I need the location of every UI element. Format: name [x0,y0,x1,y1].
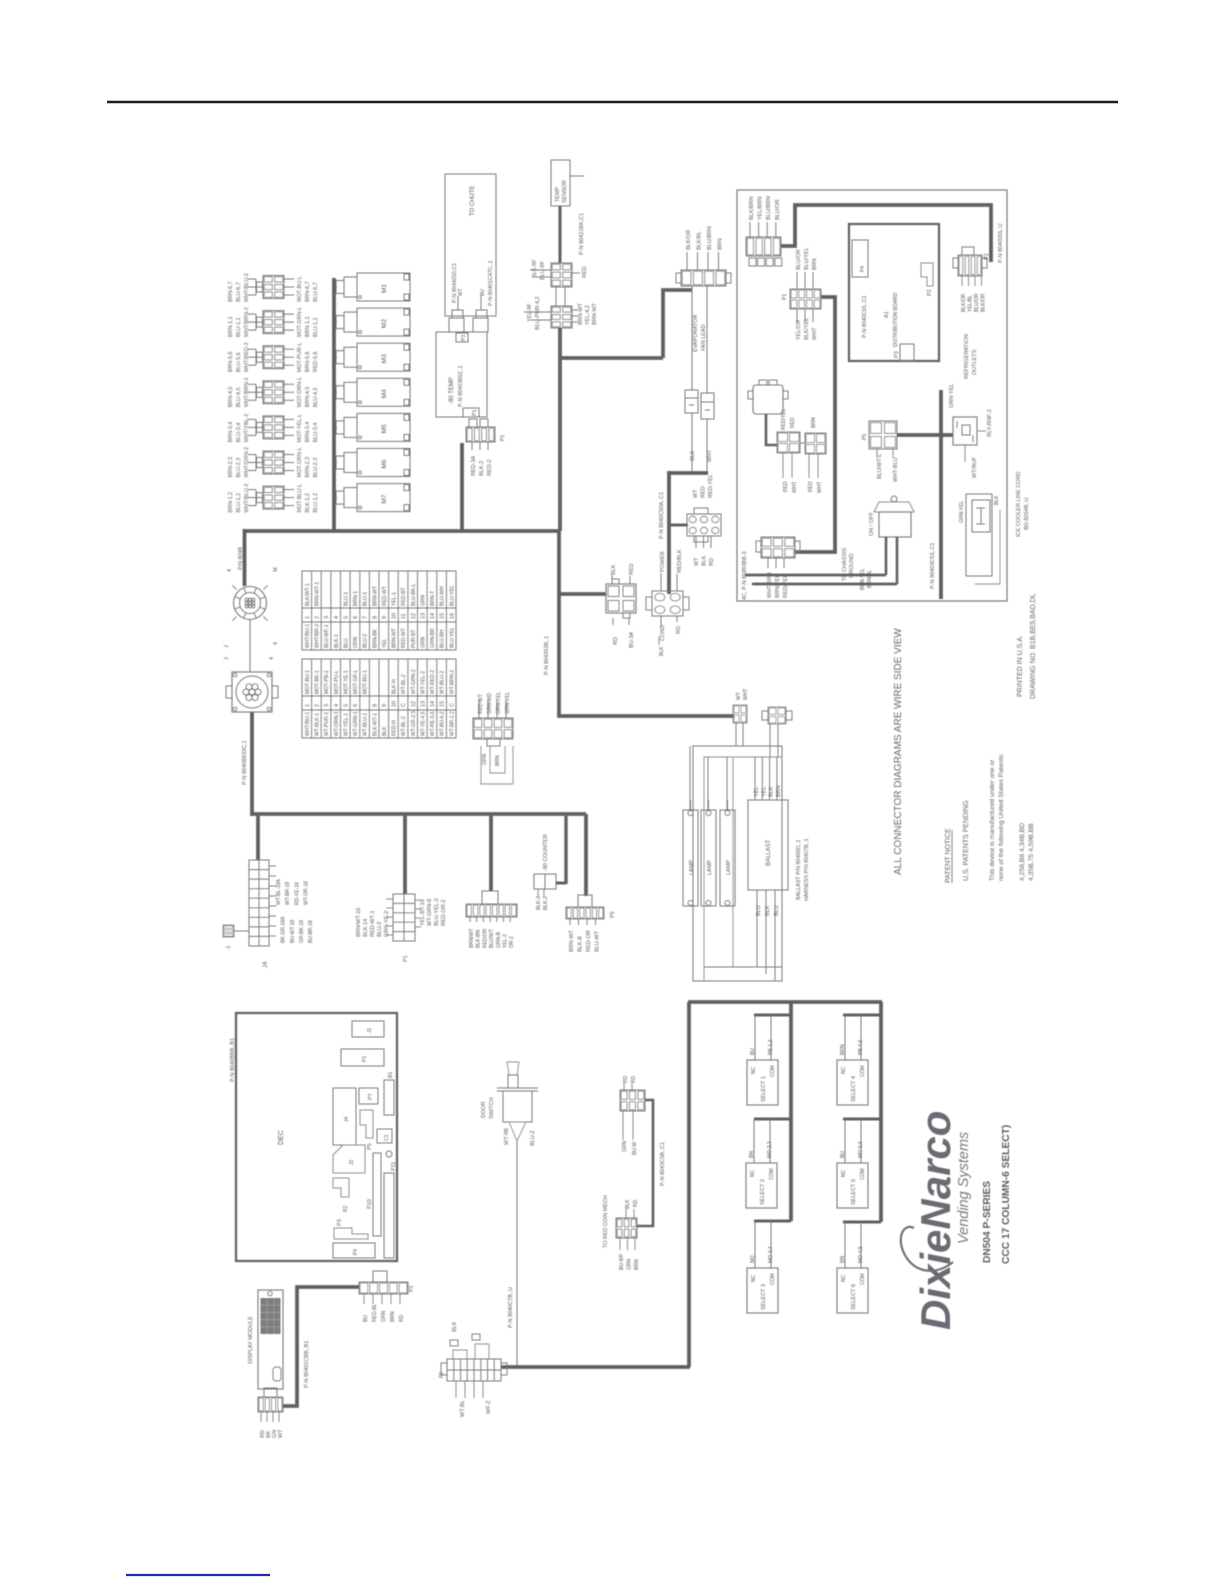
svg-text:BLU-2: BLU-2 [530,1130,536,1146]
svg-text:BLU-3,4: BLU-3,4 [236,423,242,443]
svg-text:BLU-6,7: BLU-6,7 [236,282,242,302]
svg-text:GRN-YE-2: GRN-YE-2 [384,911,390,937]
svg-text:P/N 804B: P/N 804B [238,547,244,570]
svg-text:BLU-6,7: BLU-6,7 [313,282,319,302]
svg-text:GRN: GRN [420,637,426,649]
svg-text:BLK-1: BLK-1 [334,634,340,648]
svg-text:2: 2 [315,616,321,619]
svg-text:BK-GR-18A: BK-GR-18A [281,916,287,943]
svg-text:RED-BT: RED-BT [401,587,407,606]
svg-text:P-N 8040B933C,1: P-N 8040B933C,1 [242,740,248,785]
svg-text:12: 12 [411,613,417,619]
svg-text:BLK/OR: BLK/OR [686,230,692,250]
svg-text:WT-OR-18: WT-OR-18 [304,881,310,905]
svg-text:YEL/BL: YEL/BL [968,295,974,312]
svg-text:BU: BU [363,1315,369,1322]
svg-text:WHT/BR-2: WHT/BR-2 [315,624,321,648]
svg-text:WHT: WHT [707,449,713,462]
svg-text:MOT-YEL-L: MOT-YEL-L [297,414,303,442]
svg-text:RED/YEL: RED/YEL [783,574,789,598]
svg-text:none of the following United S: none of the following United States Pate… [998,753,1005,881]
svg-text:BRN-WT: BRN-WT [372,586,378,606]
svg-text:BRN-2,3: BRN-2,3 [305,457,311,478]
svg-text:BLK-2: BLK-2 [543,896,549,910]
svg-text:4: 4 [334,616,340,619]
svg-text:BLU-WF-1: BLU-WF-1 [324,624,330,648]
svg-text:-80 COUNTER: -80 COUNTER [543,834,549,871]
svg-text:BRN-3,4: BRN-3,4 [305,422,311,443]
svg-text:WT-BL-18A: WT-BL-18A [276,878,282,905]
svg-text:BLK-9F: BLK-9F [532,259,538,278]
svg-text:5: 5 [343,616,349,619]
svg-text:BLK/WT-1: BLK/WT-1 [305,583,311,606]
svg-text:WT: WT [278,1429,284,1438]
svg-text:RED-5,6: RED-5,6 [313,352,319,373]
svg-text:P1: P1 [362,1056,368,1062]
svg-text:RD: RD [676,626,682,634]
svg-text:P3: P3 [337,1219,343,1226]
svg-text:BU-WF: BU-WF [619,1254,625,1270]
svg-text:BLK-B: BLK-B [578,936,584,952]
svg-text:COM: COM [860,1065,866,1077]
svg-text:BLU-2: BLU-2 [363,634,369,648]
svg-text:BALLAST P/N 80400D,.1: BALLAST P/N 80400D,.1 [796,840,802,900]
svg-text:BLU-3,4: BLU-3,4 [313,423,319,443]
svg-text:BLK-BN: BLK-BN [476,930,482,948]
svg-text:WT-BL-2: WT-BL-2 [401,674,407,694]
svg-text:MOT-YE-1: MOT-YE-1 [343,670,349,694]
svg-text:P-N 90403C53,.C1: P-N 90403C53,.C1 [930,543,936,589]
svg-text:M: M [273,567,279,572]
svg-text:NC: NC [841,1274,847,1282]
svg-text:MOT-BU-1: MOT-BU-1 [363,670,369,694]
svg-text:BN: BN [840,1256,846,1263]
svg-text:4: 4 [334,704,340,707]
svg-text:SENSOR: SENSOR [562,180,568,203]
svg-text:MOT-GRN-L: MOT-GRN-L [297,307,303,337]
svg-text:WT-YEL-1: WT-YEL-1 [343,713,349,736]
svg-text:BU: BU [750,1048,756,1055]
svg-text:Vending Systems: Vending Systems [956,1132,972,1244]
svg-text:RED: RED [701,486,707,498]
svg-text:COM: COM [769,1168,775,1180]
svg-text:BLU-4,5: BLU-4,5 [236,388,242,408]
svg-text:13: 13 [420,613,426,619]
svg-text:BLU-1,2: BLU-1,2 [313,493,319,513]
svg-text:RED/YEL: RED/YEL [781,408,787,430]
svg-text:WT-BU-6,2: WT-BU-6,2 [440,711,446,736]
svg-text:TEMP: TEMP [555,187,561,202]
svg-text:SELECT 5: SELECT 5 [851,1179,857,1205]
svg-text:P5: P5 [367,1143,373,1150]
svg-text:16: 16 [449,613,455,619]
svg-text:3: 3 [324,704,330,707]
svg-text:1: 1 [305,616,311,619]
svg-text:NC: NC [751,1066,757,1074]
svg-text:WT-BLK-1: WT-BLK-1 [315,713,321,736]
svg-text:BRN-YEL: BRN-YEL [860,568,866,590]
svg-text:BLU: BLU [756,905,762,916]
svg-text:BLK/YEL: BLK/YEL [804,318,810,340]
svg-text:YEL: YEL [382,638,388,648]
svg-text:BLU-2: BLU-2 [377,921,383,937]
svg-text:BLU-1,1: BLU-1,1 [236,317,242,337]
svg-text:PB-1,2: PB-1,2 [768,1039,774,1055]
svg-text:DRAWING NO. B1B,BE5,BAD,DL: DRAWING NO. B1B,BE5,BAD,DL [1030,593,1037,699]
svg-text:BD-8254B,.U: BD-8254B,.U [1024,498,1030,530]
svg-text:BLK: BLK [452,1321,458,1332]
svg-text:BRN-6,7: BRN-6,7 [305,281,311,302]
svg-text:BLU/YEL: BLU/YEL [804,247,810,270]
svg-text:WHT/YBL-2: WHT/YBL-2 [244,414,250,443]
svg-text:BRN-3,4: BRN-3,4 [228,422,234,443]
svg-text:P3: P3 [894,351,900,358]
svg-text:J: J [224,645,230,648]
svg-text:LAMP: LAMP [689,860,695,875]
svg-text:DEC: DEC [278,1130,285,1145]
svg-text:BLU-2,3: BLU-2,3 [236,458,242,478]
svg-text:ORN-YEL: ORN-YEL [496,692,502,714]
svg-text:CCC 17 COLUMN-6 SELECT): CCC 17 COLUMN-6 SELECT) [1001,1125,1012,1264]
svg-text:RED-H: RED-H [392,720,398,736]
svg-text:BRN-1,1: BRN-1,1 [228,316,234,337]
svg-text:BRN: BRN [390,1311,396,1322]
svg-text:SELECT 1: SELECT 1 [761,1076,767,1102]
svg-text:BRN: BRN [811,417,817,428]
svg-text:15: 15 [440,613,446,619]
svg-text:BLK-WT-1: BLK-WT-1 [372,713,378,736]
svg-text:BLK-3: BLK-3 [536,896,542,910]
svg-text:GRN-YEL: GRN-YEL [949,384,955,408]
svg-text:POWER: POWER [660,551,666,572]
svg-text:BLK-1,2: BLK-1,2 [305,493,311,512]
svg-text:BRN-T: BRN-T [430,591,436,606]
svg-text:BLU-BH: BLU-BH [440,629,446,648]
svg-text:WT-BLU-1: WT-BLU-1 [363,712,369,736]
svg-text:COM: COM [860,1273,866,1285]
svg-text:P1: P1 [403,955,409,962]
svg-text:P5: P5 [862,434,868,440]
svg-text:10: 10 [392,701,398,707]
svg-text:NC: NC [841,1169,847,1177]
svg-text:BRN-1,2: BRN-1,2 [228,492,234,513]
svg-text:BRN: BRN [840,1044,846,1055]
svg-text:P-N 80401C47C,.1: P-N 80401C47C,.1 [488,260,494,306]
svg-text:P-N 8040C50A,.C1: P-N 8040C50A,.C1 [659,492,665,539]
svg-text:RED-YEL: RED-YEL [708,474,714,498]
svg-text:SELECT 3: SELECT 3 [761,1284,767,1310]
svg-text:MOT-PU-L: MOT-PU-L [334,670,340,694]
svg-text:P1: P1 [500,435,506,441]
svg-text:BLU: BLU [343,638,349,648]
svg-text:DISPLAY MODULE: DISPLAY MODULE [248,1316,254,1364]
svg-text:BLU-1: BLU-1 [343,592,349,606]
svg-text:BLU/BRN: BLU/BRN [766,196,772,220]
svg-text:RD: RD [623,1075,629,1083]
svg-text:P2: P2 [984,253,990,260]
svg-text:BN: BN [749,1151,755,1158]
svg-text:BRN-WT: BRN-WT [578,302,584,325]
svg-text:YEL: YEL [754,787,760,797]
svg-text:RED-OR: RED-OR [586,930,592,952]
svg-text:RED: RED [582,266,588,278]
svg-text:MOT-PB-1: MOT-PB-1 [324,670,330,694]
svg-text:YEL: YEL [761,787,767,797]
svg-text:M7: M7 [381,494,388,503]
svg-text:WT/BUF: WT/BUF [972,456,978,478]
svg-text:J: J [224,657,230,660]
svg-text:BLK: BLK [690,450,696,461]
svg-text:EVAPORATOR: EVAPORATOR [693,315,699,352]
svg-text:GRN-B: GRN-B [496,931,502,948]
svg-text:RD: RD [631,1075,637,1083]
svg-text:10: 10 [392,613,398,619]
svg-text:P-N 8040555,.U: P-N 8040555,.U [998,224,1004,263]
svg-text:P4: P4 [860,266,866,272]
svg-text:OUTLETS: OUTLETS [972,349,978,375]
svg-text:WT-BL-2: WT-BL-2 [401,716,407,736]
svg-text:P4: P4 [353,1249,359,1255]
svg-text:RED-WT: RED-WT [382,586,388,606]
svg-text:BLK: BLK [769,786,775,797]
svg-text:BLU-WH: BLU-WH [440,586,446,606]
svg-text:MOT-GR-L: MOT-GR-L [353,669,359,694]
svg-text:BU: BU [840,1151,846,1158]
svg-text:WHT-BLU: WHT-BLU [893,457,899,482]
svg-text:M1: M1 [381,284,388,293]
svg-text:BRN-1,1: BRN-1,1 [305,316,311,337]
svg-text:BLK-14: BLK-14 [363,919,369,937]
svg-text:MO-4,5: MO-4,5 [858,1246,864,1263]
svg-text:This device is manufactured un: This device is manufactured under one or [989,759,996,881]
svg-text:RED: RED [629,563,635,575]
svg-text:P1: P1 [782,294,788,300]
svg-text:M5: M5 [381,424,388,433]
svg-text:RD: RD [613,637,619,645]
svg-text:RD: RD [399,1314,405,1322]
svg-text:MOT-BLU-L: MOT-BLU-L [297,484,303,513]
svg-text:8: 8 [372,704,378,707]
svg-text:MOT-ORN-L: MOT-ORN-L [297,377,303,407]
svg-text:-1: -1 [226,945,232,950]
svg-text:P-N 80401CBB,.B1: P-N 80401CBB,.B1 [304,1341,310,1388]
svg-text:TO CHASSIS: TO CHASSIS [842,547,848,581]
svg-text:BRN-5,6: BRN-5,6 [305,352,311,373]
svg-text:4: 4 [273,642,279,645]
svg-text:BRN/YEL: BRN/YEL [775,574,781,598]
svg-text:BLU-4,5: BLU-4,5 [313,388,319,408]
svg-text:DISTRIBUTION BOARD: DISTRIBUTION BOARD [893,292,899,347]
svg-text:WT-9B: WT-9B [504,1128,510,1145]
svg-text:14: 14 [430,613,436,619]
svg-text:REFRIGERATION: REFRIGERATION [964,334,970,379]
svg-text:WT: WT [736,692,742,700]
svg-text:WT-RED-2: WT-RED-2 [430,670,436,694]
svg-text:P-N 8043C5B,.C1: P-N 8043C5B,.C1 [660,1142,666,1186]
svg-text:BRN-WT: BRN-WT [592,302,598,325]
svg-text:BLU-YEL-2: BLU-YEL-2 [434,898,440,926]
svg-text:FAN LEAD: FAN LEAD [701,324,707,351]
svg-text:GRN-WD: GRN-WD [487,693,493,714]
svg-text:P-N 80421BK,C1: P-N 80421BK,C1 [579,213,585,255]
svg-text:BLK: BLK [611,564,617,575]
svg-text:WHT/BU-1: WHT/BU-1 [305,624,311,648]
svg-text:GROUND: GROUND [849,554,855,578]
svg-text:RED-3A: RED-3A [471,455,477,476]
svg-text:GRN-YEL: GRN-YEL [959,501,965,523]
svg-text:BLU-5,6: BLU-5,6 [236,352,242,372]
svg-text:14: 14 [430,701,436,707]
svg-text:WT-ORN-1: WT-ORN-1 [334,711,340,736]
svg-text:RED: RED [783,481,789,492]
svg-text:WT-BR-18: WT-BR-18 [285,881,291,905]
svg-text:P2: P2 [927,289,933,296]
svg-text:SELECT 6: SELECT 6 [851,1284,857,1310]
svg-text:RED: RED [808,481,814,492]
svg-text:9: 9 [382,704,388,707]
svg-text:BRN: BRN [776,785,782,797]
svg-text:ORN: ORN [353,637,359,649]
svg-text:WT-YE-4,5: WT-YE-4,5 [420,711,426,736]
svg-text:TO RED COIN MECH: TO RED COIN MECH [603,1195,609,1248]
svg-text:SWITCH: SWITCH [489,1097,495,1119]
svg-text:BLU/WT: BLU/WT [489,929,495,948]
svg-text:GRN: GRN [420,595,426,607]
svg-text:WT-BRN-2: WT-BRN-2 [449,670,455,694]
svg-text:WT-GRN-8: WT-GRN-8 [427,899,433,926]
svg-text:RED/BLK: RED/BLK [677,549,683,573]
svg-text:4: 4 [227,569,233,572]
svg-text:J4: J4 [344,1117,350,1123]
svg-text:15: 15 [440,701,446,707]
svg-text:BRN-BK: BRN-BK [372,628,378,648]
svg-text:GRN: GRN [381,1311,387,1323]
svg-text:BRN-2,3: BRN-2,3 [228,457,234,478]
svg-text:BLU-1: BLU-1 [363,592,369,606]
svg-text:M6: M6 [381,459,388,468]
svg-text:GRN-BR: GRN-BR [430,628,436,648]
svg-text:BLK-2: BLK-2 [479,461,485,476]
svg-text:P2: P2 [439,1372,445,1378]
svg-text:RED/OR: RED/OR [482,928,488,948]
svg-text:NC: NC [841,1066,847,1074]
svg-text:P-N 80453652,.1: P-N 80453652,.1 [458,365,464,407]
svg-text:RED-WT-1: RED-WT-1 [370,910,376,937]
svg-text:WF-2: WF-2 [486,1401,492,1414]
svg-text:WT: WT [694,557,700,566]
svg-text:ICE COOLER LINE CORD: ICE COOLER LINE CORD [1016,472,1022,537]
svg-text:BLK: BLK [994,495,1000,505]
svg-text:BRN/WT: BRN/WT [469,928,475,948]
svg-text:BLU-YEL: BLU-YEL [449,627,455,648]
svg-text:WT: WT [458,288,464,296]
svg-text:BLU-YEL: BLU-YEL [449,585,455,606]
svg-text:MOT-BK-1: MOT-BK-1 [315,670,321,694]
svg-text:YEL-2: YEL-2 [503,934,509,948]
svg-text:P5: P5 [610,911,616,918]
svg-text:COM: COM [770,1065,776,1077]
svg-text:WT-BL: WT-BL [460,1400,466,1417]
svg-text:P7: P7 [368,1093,374,1100]
svg-text:BLU-1,1: BLU-1,1 [313,317,319,337]
svg-text:BU: BU [480,289,486,296]
svg-text:OR-2: OR-2 [509,936,515,948]
svg-text:GRN-YEL: GRN-YEL [505,692,511,714]
svg-text:TO CHUTE: TO CHUTE [470,185,476,216]
svg-text:U.S. PATENTS PENDING: U.S. PATENTS PENDING [963,800,970,881]
svg-text:WT-GRN-1: WT-GRN-1 [353,711,359,736]
svg-text:YEL-BT-16: YEL-BT-16 [420,899,426,926]
svg-text:B1: B1 [388,1072,394,1078]
svg-text:COM: COM [770,1273,776,1285]
svg-text:MOT-BU-L: MOT-BU-L [297,276,303,302]
svg-text:9: 9 [382,616,388,619]
svg-text:BLK/OR: BLK/OR [961,293,967,312]
svg-text:3: 3 [324,616,330,619]
svg-text:P-N 804353B,.1: P-N 804353B,.1 [544,636,550,675]
svg-text:BLU/OR: BLU/OR [974,293,980,312]
svg-text:GRN: GRN [482,754,488,766]
svg-text:BRN-1: BRN-1 [353,591,359,606]
svg-text:YEL/BRN: YEL/BRN [758,196,764,220]
svg-text:RED-WT: RED-WT [478,694,484,714]
svg-text:BRN-WT: BRN-WT [569,929,575,952]
svg-text:WT-BR-1,2: WT-BR-1,2 [449,711,455,736]
svg-text:BLK/BRN: BLK/BRN [749,196,755,220]
svg-text:A1: A1 [884,311,890,318]
svg-text:-80 TEMP: -80 TEMP [449,377,455,404]
svg-text:BLU-2,3: BLU-2,3 [313,458,319,478]
svg-text:WHT/BU-1: WHT/BU-1 [305,712,311,736]
svg-text:BLK-H: BLK-H [392,679,398,694]
svg-text:WHT: WHT [743,689,749,700]
svg-text:P11: P11 [391,1162,397,1171]
svg-text:RED-2: RED-2 [487,459,493,476]
svg-text:R2: R2 [343,1205,349,1212]
svg-text:COM: COM [860,1168,866,1180]
svg-text:YEL-1: YEL-1 [392,592,398,606]
svg-text:C: C [449,703,455,707]
svg-text:BRN-WT-1: BRN-WT-1 [315,582,321,606]
svg-text:WT-PUR-1: WT-PUR-1 [324,712,330,736]
svg-text:12: 12 [411,701,417,707]
svg-text:RD: RD [633,1199,639,1207]
svg-text:PATENT NOTICE: PATENT NOTICE [945,828,952,883]
svg-text:SELECT 2: SELECT 2 [760,1179,766,1205]
svg-text:M3: M3 [381,354,388,363]
svg-text:LAMP: LAMP [726,860,732,875]
svg-text:7: 7 [363,616,369,619]
svg-text:GRN: GRN [627,1259,633,1271]
svg-text:8: 8 [372,616,378,619]
svg-text:BU-WT-18: BU-WT-18 [290,919,296,943]
svg-text:BRN-5,6: BRN-5,6 [228,352,234,373]
svg-text:BLU/BRN: BLU/BRN [707,226,713,250]
svg-text:HARNESS P/N 80427B,.1: HARNESS P/N 80427B,.1 [804,838,810,901]
svg-text:RLY-RNF-2: RLY-RNF-2 [987,409,993,437]
svg-text:WT-BLU-2: WT-BLU-2 [440,670,446,694]
svg-text:BLU: BLU [774,905,780,916]
svg-text:1: 1 [305,704,311,707]
svg-text:4: 4 [269,657,275,660]
svg-text:BRN: BRN [495,755,501,766]
svg-text:MO-3,4: MO-3,4 [768,1246,774,1263]
svg-text:WT-GRN-2: WT-GRN-2 [411,669,417,694]
svg-text:BRN-6,7: BRN-6,7 [228,281,234,302]
svg-text:WHT: WHT [812,327,818,340]
svg-text:BLU-WT: BLU-WT [595,930,601,952]
svg-text:BRN-WT: BRN-WT [392,628,398,648]
